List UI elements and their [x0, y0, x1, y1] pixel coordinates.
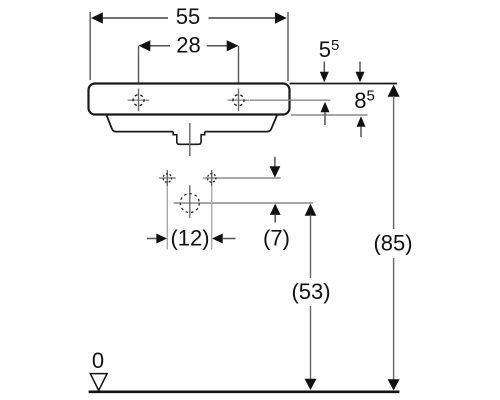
dim 8.5 arrow up a: [321, 102, 330, 125]
siphon circle: [180, 194, 199, 213]
datum triangle: [90, 374, 107, 391]
tap hole right crosshair: [228, 89, 250, 112]
basin top edge extension line: [290, 83, 398, 85]
fixing hole left: [159, 170, 176, 186]
dim 7 arrow up: [270, 204, 281, 223]
svg-text:28: 28: [176, 33, 200, 58]
dim 8.5 arrow up b: [357, 116, 366, 137]
dim 55 arrow left: [91, 12, 103, 23]
basin bowl: [107, 115, 277, 131]
dim 28 extension line right: [238, 46, 240, 88]
dim 55 arrow right: [275, 12, 287, 23]
dim 12 arrow right: [212, 234, 236, 244]
dim 12 extension line right: [211, 186, 213, 250]
dim 55 extension line left: [89, 12, 91, 80]
dim 85 arrow up: [388, 85, 400, 97]
svg-text:(7): (7): [263, 226, 290, 251]
dim 7 arrow down: [270, 157, 281, 178]
rim bottom reference line: [291, 114, 368, 116]
dim 12 arrow left: [147, 234, 167, 244]
svg-text:(85): (85): [373, 231, 412, 256]
siphon reference line: [216, 202, 313, 204]
dim 85 arrow down: [388, 379, 400, 390]
dim 28 arrow right: [227, 40, 239, 51]
tap hole height reference line: [250, 99, 330, 101]
tap hole right circle: [233, 95, 244, 106]
dim 53 line lower: [310, 306, 312, 380]
dim 85 line upper: [393, 96, 395, 229]
dim 28 extension line left: [138, 46, 140, 88]
dim 5.5 arrow down b: [356, 62, 365, 83]
dim 28 line: [150, 45, 228, 47]
fixing hole right: [203, 170, 220, 186]
drain centerline: [189, 123, 191, 156]
dim 53 line upper: [310, 215, 312, 279]
washbasin rim: [89, 84, 290, 115]
dim 5.5 arrow down a: [320, 62, 329, 83]
svg-text:55: 55: [176, 4, 200, 29]
dim 85 line lower: [393, 258, 395, 380]
svg-text:0: 0: [92, 348, 104, 373]
dim 28 arrow left: [139, 40, 151, 51]
fixing holes reference line: [220, 177, 281, 179]
siphon circle crosshair: [174, 185, 217, 218]
svg-text:(12): (12): [170, 226, 209, 251]
dim 55 extension line right: [287, 12, 289, 81]
tap hole left crosshair: [128, 89, 150, 112]
dim 55 line: [102, 17, 276, 19]
svg-text:(53): (53): [291, 279, 330, 304]
floor line: [89, 390, 400, 393]
dim 12 extension line left: [166, 186, 168, 250]
drain outlet cup: [173, 132, 205, 145]
dim 53 arrow up: [305, 204, 317, 216]
tap hole left circle: [133, 95, 144, 106]
dim 53 arrow down: [305, 379, 317, 390]
